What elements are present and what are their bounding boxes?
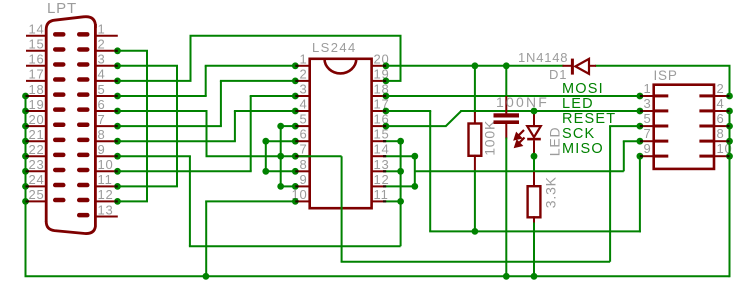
svg-text:4: 4	[299, 97, 307, 112]
svg-text:1: 1	[643, 81, 651, 96]
junction dots node LS5-LS7-LS9	[277, 123, 284, 190]
junction dot node 100K-LED bus	[472, 228, 479, 235]
svg-text:6: 6	[717, 111, 725, 126]
junction dots ISP pins 2,4,6,8,10	[726, 93, 733, 160]
svg-text:LS244: LS244	[312, 40, 357, 55]
svg-text:23: 23	[28, 157, 44, 172]
svg-text:3: 3	[643, 96, 651, 111]
svg-text:15: 15	[28, 37, 44, 52]
wire ISP5 vertical	[609, 126, 611, 262]
wire LS9 stub	[281, 185, 296, 187]
LS244 pin 8	[295, 170, 310, 172]
LPT pin pads	[53, 32, 90, 217]
wire LS16 RESET row	[386, 125, 447, 127]
junction dots LS244 right pins 20-16	[383, 62, 390, 129]
capacitor C1 plates	[494, 113, 520, 117]
LS244 pin 5	[295, 125, 310, 127]
junction dots LPT right pins 2-12	[114, 47, 121, 204]
wire LPT7-LS2 vertical	[220, 81, 222, 126]
wire top net LPT4-LS19	[190, 35, 402, 37]
capacitor C1 top lead	[505, 96, 507, 115]
svg-text:9: 9	[299, 172, 307, 187]
LPT pin 7	[94, 125, 118, 127]
junction dots node MISO net	[411, 153, 418, 190]
ISP pin 10	[714, 155, 730, 157]
svg-text:100NF: 100NF	[496, 94, 549, 110]
wire 100K bottom	[474, 170, 476, 231]
LS244 pin 6	[295, 140, 310, 142]
svg-text:18: 18	[28, 82, 44, 97]
svg-text:4: 4	[98, 67, 106, 82]
wire LPT18-25 ground bus vertical	[25, 96, 27, 276]
LS244 pin 15	[371, 140, 386, 142]
LS244 pin 10	[295, 200, 310, 202]
svg-text:13: 13	[98, 202, 114, 217]
resistor R2 3.3K bottom lead	[533, 216, 535, 223]
svg-text:1: 1	[299, 51, 307, 66]
wire LPT10-LS3 vertical	[250, 96, 252, 171]
LS244 pin 4	[295, 110, 310, 112]
LPT pin 15	[26, 50, 47, 52]
junction dot node LED anode	[531, 108, 538, 115]
LPT pin 17	[26, 80, 47, 82]
buffer IC LS244 body	[310, 59, 372, 208]
wire LPT3 row	[118, 65, 179, 67]
junction dots LS244 left pins 1-10	[292, 62, 299, 204]
svg-text:ISP: ISP	[654, 68, 678, 83]
svg-text:2: 2	[717, 81, 725, 96]
wire LPT9 down vertical	[189, 156, 191, 246]
svg-text:17: 17	[28, 67, 44, 82]
wire LS17 LED row	[386, 110, 431, 112]
LPT pin 9	[94, 155, 118, 157]
svg-text:D1: D1	[549, 67, 567, 82]
LS244 pin 13	[371, 170, 386, 172]
wire LPT6 to LS7 row	[206, 155, 342, 157]
wire LPT6 row	[118, 110, 208, 112]
svg-text:LPT: LPT	[47, 0, 77, 17]
wire LPT2-LPT12 vertical	[146, 51, 148, 202]
wire LPT11 row	[118, 185, 179, 187]
LPT pin 2	[94, 50, 118, 52]
wire LS3 row	[250, 95, 296, 97]
LS244 pin 14	[371, 155, 386, 157]
wire MOSI row LS18-ISP1	[386, 95, 640, 97]
wire LS4 row	[234, 110, 295, 112]
LED cathode lead	[533, 140, 535, 156]
wire ISP ground chain vertical	[729, 111, 731, 277]
LPT pin 11	[94, 185, 118, 187]
wire LS14-LS12 vertical	[414, 156, 416, 186]
wire 3.3K bottom	[533, 223, 535, 277]
junction dots node SCK net	[397, 138, 404, 205]
junction dots ground bus	[203, 273, 538, 280]
LPT pin 8	[94, 140, 118, 142]
wire LPT9 row	[118, 155, 191, 157]
LPT pin 13	[94, 216, 118, 218]
wire LED bus	[429, 230, 641, 232]
junction dot node LED cathode	[531, 153, 538, 160]
junction dots node LS6-LS8	[262, 138, 269, 175]
ISP pin 2	[714, 95, 730, 97]
svg-text:3.3K: 3.3K	[543, 176, 559, 208]
wire VCC row LS20 to diode	[386, 65, 564, 67]
LPT pin 22	[26, 155, 47, 157]
svg-text:100K: 100K	[482, 120, 498, 156]
LS244 pin 3	[295, 95, 310, 97]
LPT pin 3	[94, 65, 118, 67]
svg-text:7: 7	[98, 112, 106, 127]
LPT pin 1	[94, 35, 118, 37]
wire bus mid	[341, 261, 610, 263]
junction dots ISP pins 1,3,5,7,9	[637, 93, 644, 160]
LPT pin 24	[26, 185, 47, 187]
wire bus sck	[189, 245, 401, 247]
wire LS10 ground vertical	[205, 201, 207, 276]
LS244 pin 11	[371, 200, 386, 202]
diode D1 1N4148 symbol	[571, 59, 574, 75]
junction dots LPT left pins 18-25	[22, 93, 29, 205]
svg-text:11: 11	[374, 187, 389, 202]
wire LED to 3.3K	[533, 156, 535, 173]
svg-text:22: 22	[28, 142, 44, 157]
LPT pin 20	[26, 125, 47, 127]
svg-text:14: 14	[28, 22, 44, 37]
wire LS13 stub	[386, 170, 401, 172]
ISP pin 5	[640, 125, 655, 127]
LPT pin 6	[94, 110, 118, 112]
wire ISP5 stub	[609, 125, 640, 127]
wire VCC row diode to ISP	[595, 65, 731, 67]
wire LS19 down vertical	[400, 36, 402, 81]
resistor R1 100K bottom lead	[474, 155, 476, 171]
LPT pin 16	[26, 65, 47, 67]
wire LED net vertical	[429, 111, 431, 231]
svg-text:12: 12	[374, 172, 390, 187]
LS244 pin 20	[371, 65, 386, 67]
wire LS19 stub	[386, 80, 402, 82]
ISP pin pads	[654, 94, 714, 157]
wire capacitor bottom	[505, 138, 507, 277]
wire LS14 row	[386, 155, 415, 157]
wire VCC down to ISP2	[729, 66, 731, 96]
wire LPT5 row	[118, 95, 207, 97]
ISP pin 4	[714, 110, 730, 112]
junction dots node VCC	[472, 62, 510, 69]
wire LS8 stub	[266, 170, 296, 172]
LPT pin 12	[94, 200, 118, 202]
LED arrows	[515, 130, 525, 147]
wire LS5-LS7-LS9 vertical	[280, 126, 282, 186]
resistor R1 100K body	[469, 124, 482, 156]
svg-text:2: 2	[299, 66, 307, 81]
LPT pin 21	[26, 140, 47, 142]
svg-text:1N4148: 1N4148	[518, 50, 568, 65]
LPT connector X1 body	[46, 17, 95, 222]
svg-text:7: 7	[643, 126, 651, 141]
resistor R2 3.3K top lead	[533, 172, 535, 187]
wire LPT8-LS4 vertical	[234, 111, 236, 141]
svg-text:9: 9	[643, 141, 651, 156]
svg-text:SCK: SCK	[562, 126, 595, 142]
svg-text:20: 20	[28, 112, 44, 127]
LED D2 symbol	[527, 126, 541, 137]
svg-text:8: 8	[717, 126, 725, 141]
resistor R2 3.3K body	[528, 186, 541, 217]
LS244 pin 12	[371, 185, 386, 187]
LS244 pin 9	[295, 185, 310, 187]
LS244 pin 17	[371, 110, 386, 112]
svg-text:8: 8	[98, 127, 106, 142]
wire LPT4 up vertical	[190, 36, 192, 81]
wire LPT10 row	[118, 170, 252, 172]
svg-text:LED: LED	[562, 96, 594, 112]
wire LS11 stub	[386, 200, 401, 202]
svg-text:10: 10	[98, 157, 114, 172]
svg-text:6: 6	[98, 97, 106, 112]
svg-text:24: 24	[28, 172, 44, 187]
svg-text:5: 5	[98, 82, 106, 97]
LPT pin 23	[26, 170, 47, 172]
wire LS5 stub	[281, 125, 296, 127]
wire LS6-LS8 vertical	[265, 141, 267, 171]
LPT pin 14	[26, 35, 47, 37]
svg-text:16: 16	[28, 52, 44, 67]
diode D1 anode lead	[563, 65, 572, 67]
svg-text:19: 19	[28, 97, 44, 112]
LS244 pin 18	[371, 95, 386, 97]
svg-text:1: 1	[98, 22, 106, 37]
LPT pin 19	[26, 110, 47, 112]
svg-text:25: 25	[28, 187, 44, 202]
LS244 pin 7	[295, 155, 310, 157]
svg-text:7: 7	[299, 142, 307, 157]
ISP pin 6	[714, 125, 730, 127]
wire LS12 row	[386, 185, 415, 187]
svg-text:LED: LED	[547, 127, 563, 157]
LS244 pin 1	[295, 65, 310, 67]
svg-text:5: 5	[643, 111, 651, 126]
wire LS15 stub	[386, 140, 401, 142]
diode D1 cathode lead	[588, 65, 596, 67]
wire LPT8 row	[118, 140, 236, 142]
svg-text:5: 5	[299, 112, 307, 127]
wire LS1 row	[205, 65, 296, 67]
LS244 notch	[325, 59, 357, 74]
wire ISP9 down vertical	[639, 156, 641, 232]
svg-text:4: 4	[717, 96, 725, 111]
wire ground bottom bus	[25, 275, 730, 277]
wire reset diagonal	[446, 111, 461, 126]
svg-text:MISO: MISO	[562, 141, 604, 157]
svg-text:3: 3	[98, 52, 106, 67]
svg-text:6: 6	[299, 127, 307, 142]
svg-text:9: 9	[98, 142, 106, 157]
resistor R1 100K top lead	[474, 112, 476, 125]
wire LS10 ground row	[205, 200, 295, 202]
wire LPT7 row	[118, 125, 222, 127]
wire LPT3-LPT11 vertical	[176, 66, 178, 187]
wire through-IC vertical	[341, 156, 343, 262]
ISP connector body	[654, 85, 714, 169]
svg-text:MOSI: MOSI	[562, 81, 604, 97]
LPT pin 25	[26, 200, 47, 202]
svg-text:14: 14	[374, 142, 390, 157]
LED anode lead	[533, 111, 535, 127]
wire LPT4 row	[118, 80, 192, 82]
capacitor C1 bottom lead	[505, 124, 507, 139]
svg-text:21: 21	[28, 127, 44, 142]
wire LPT5-LS1 vertical	[205, 66, 207, 96]
wire LS2 row	[220, 80, 295, 82]
LS244 pin 2	[295, 80, 310, 82]
svg-text:3: 3	[299, 81, 307, 96]
ISP pin 1	[640, 95, 655, 97]
LPT pin 4	[94, 80, 118, 82]
ISP pin 3	[640, 110, 655, 112]
svg-text:2: 2	[98, 37, 106, 52]
svg-text:8: 8	[299, 157, 307, 172]
ISP pin 8	[714, 140, 730, 142]
wire sck up vertical	[400, 141, 402, 246]
LPT pin 10	[94, 170, 118, 172]
wire capacitor top	[505, 66, 507, 97]
pin overlap ticks	[26, 51, 730, 202]
wire LPT6 down vertical	[206, 111, 208, 156]
wire LS6 stub	[266, 140, 296, 142]
LS244 pin 16	[371, 125, 386, 127]
svg-text:12: 12	[98, 187, 114, 202]
wire reset to ISP3 row	[460, 110, 640, 112]
ISP pin 9	[640, 155, 655, 157]
svg-text:RESET: RESET	[562, 111, 616, 127]
wire ISP7 stub	[623, 140, 640, 142]
wire MISO jog row	[415, 170, 624, 172]
wire ISP7 jog vertical	[623, 141, 625, 171]
LPT pin 5	[94, 95, 118, 97]
svg-text:11: 11	[98, 172, 113, 187]
svg-text:13: 13	[374, 157, 390, 172]
wire LPT12 row	[118, 200, 149, 202]
wire 100K top	[474, 66, 476, 113]
wire LPT2 row	[118, 50, 149, 52]
LS244 pin 19	[371, 80, 386, 82]
ISP pin 7	[640, 140, 655, 142]
LPT pin 18	[26, 95, 47, 97]
